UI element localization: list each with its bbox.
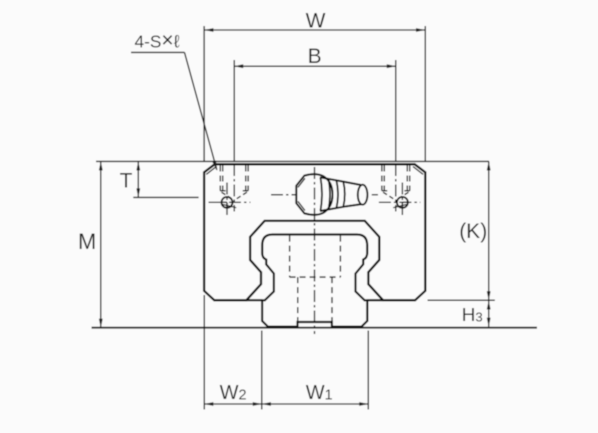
svg-text:W: W (306, 9, 326, 32)
svg-text:M: M (78, 229, 96, 254)
svg-text:T: T (120, 169, 133, 192)
svg-text:B: B (308, 45, 322, 68)
svg-text:(K): (K) (459, 220, 487, 243)
svg-text:4-S×ℓ: 4-S×ℓ (135, 29, 180, 52)
